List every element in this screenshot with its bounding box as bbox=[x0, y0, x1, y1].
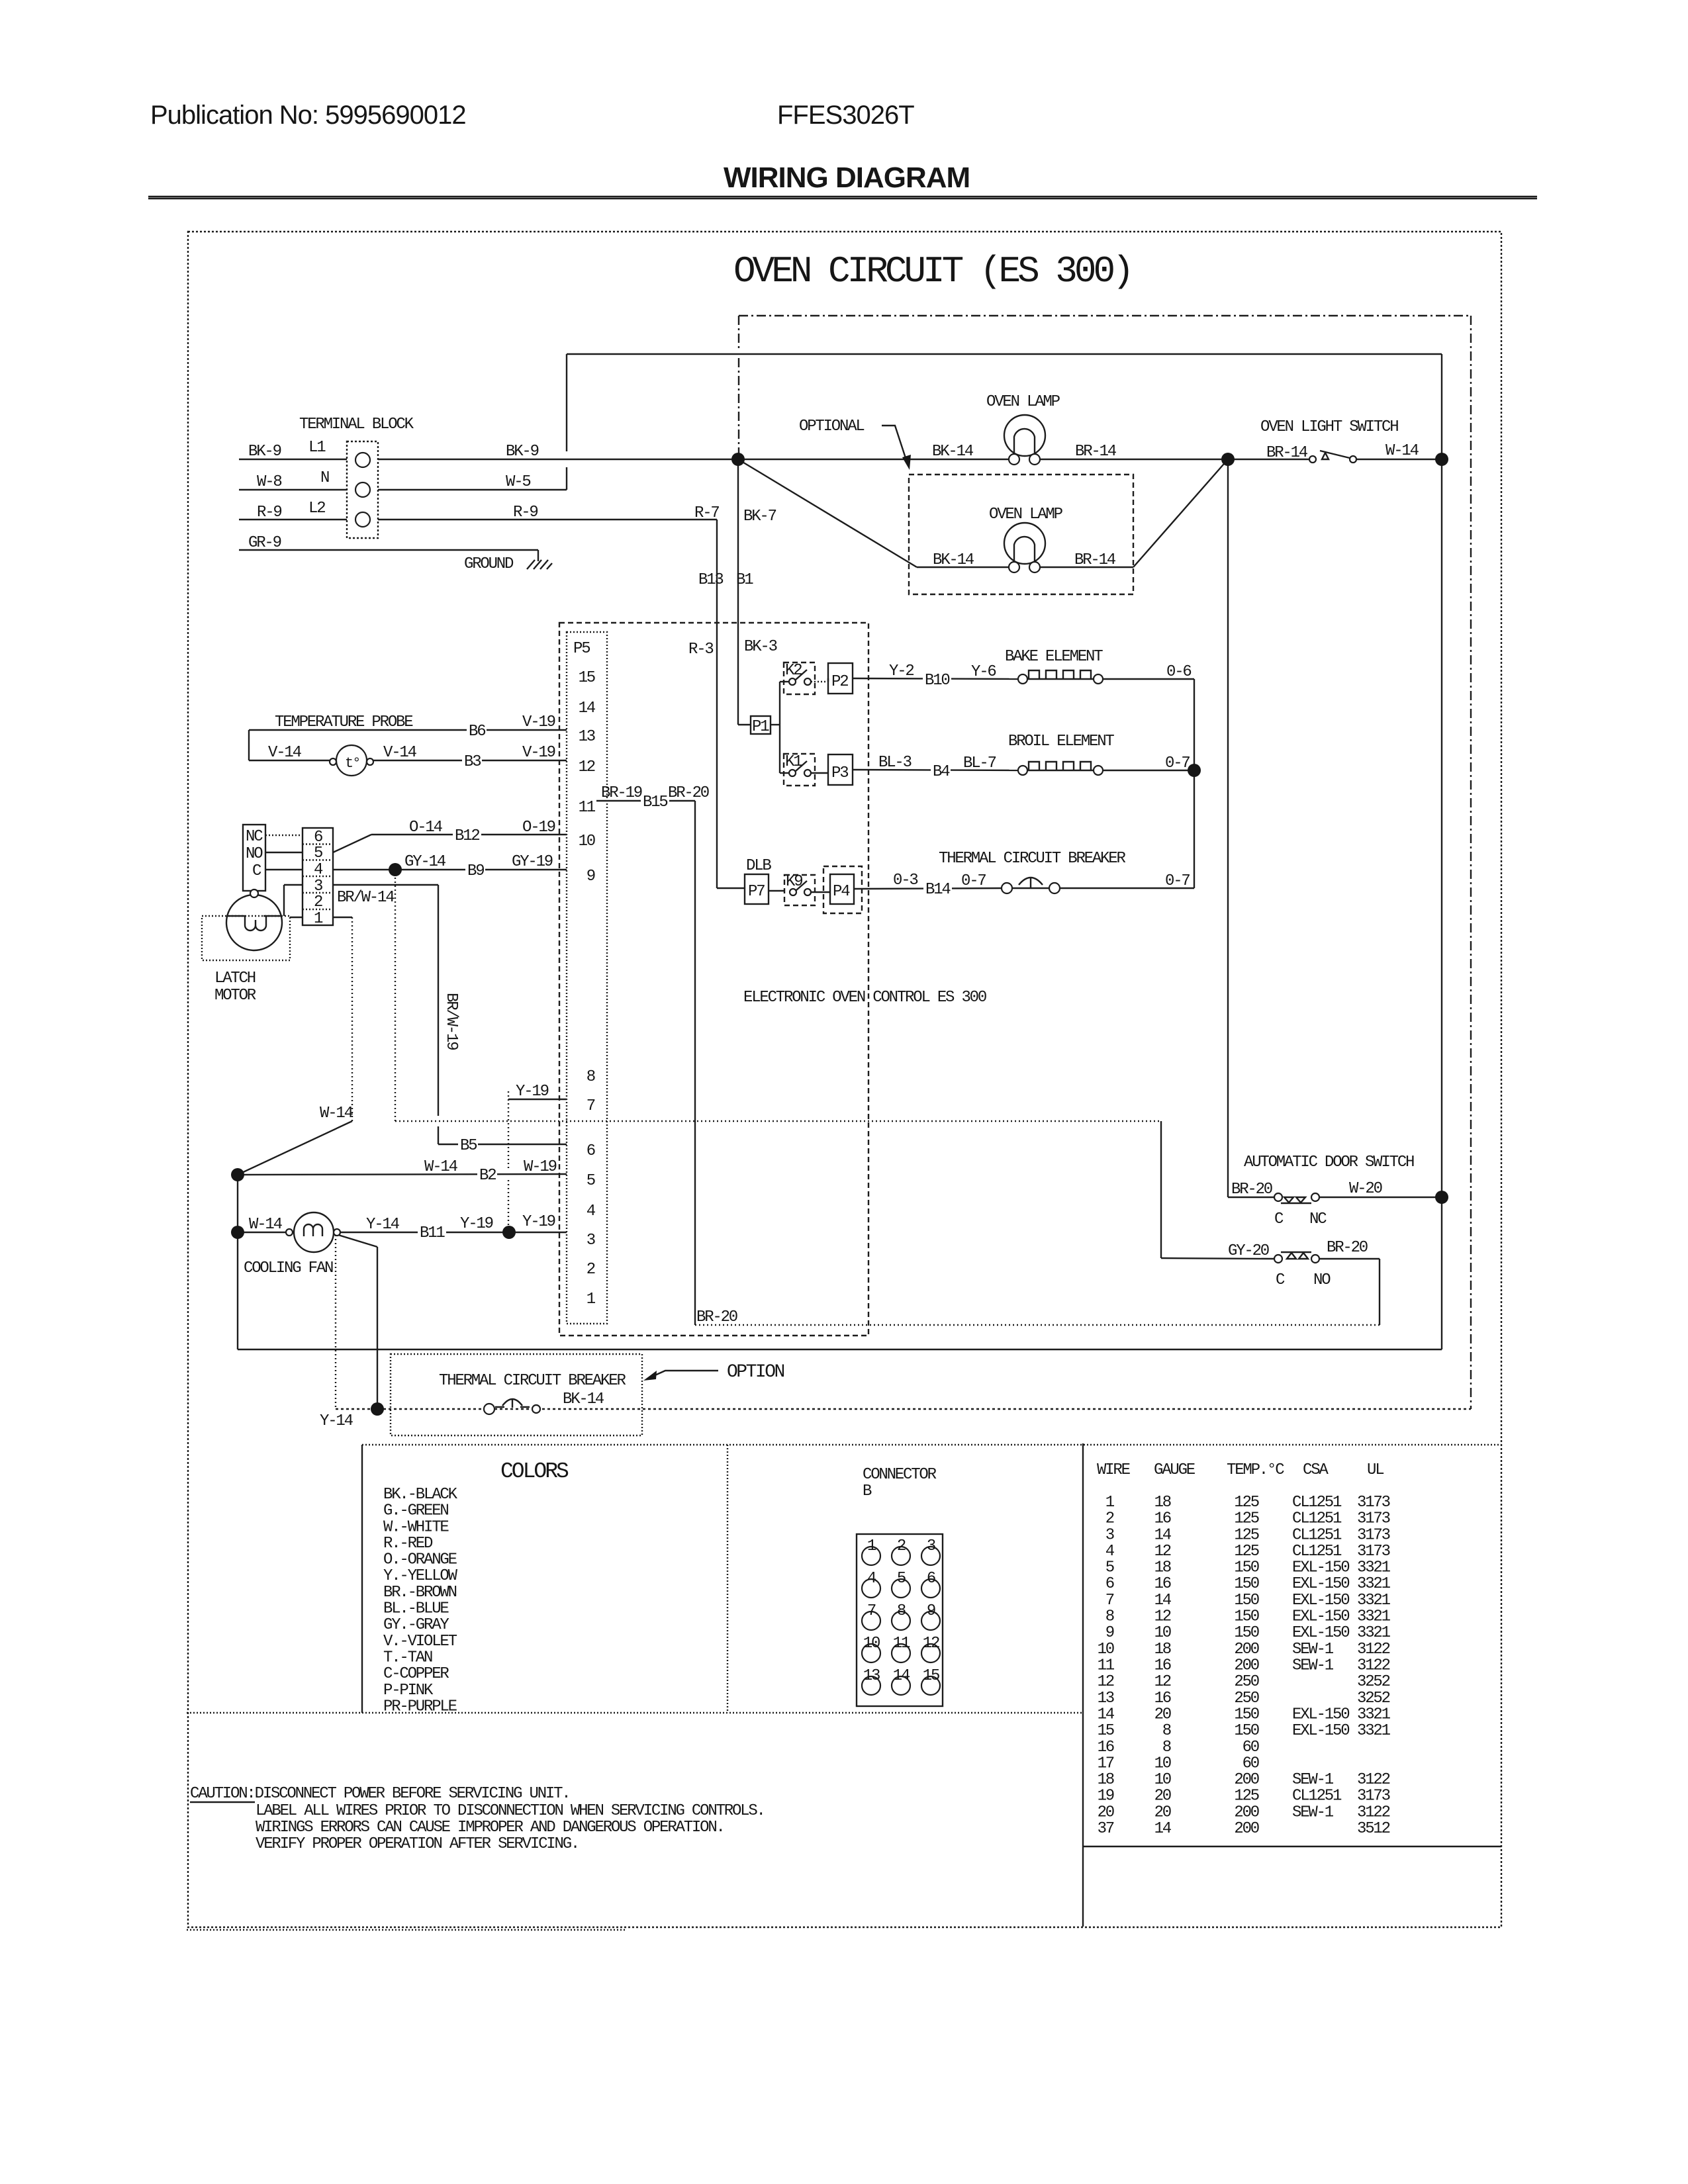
svg-text:LABEL ALL WIRES PRIOR TO DISCO: LABEL ALL WIRES PRIOR TO DISCONNECTION W… bbox=[256, 1802, 765, 1820]
svg-text:125: 125 bbox=[1234, 1543, 1258, 1561]
svg-text:6: 6 bbox=[1105, 1575, 1114, 1593]
svg-text:NO: NO bbox=[246, 845, 263, 863]
svg-text:B10: B10 bbox=[925, 672, 949, 690]
svg-text:WIRING DIAGRAM: WIRING DIAGRAM bbox=[724, 161, 970, 194]
svg-text:EXL-150: EXL-150 bbox=[1292, 1722, 1349, 1740]
svg-text:3321: 3321 bbox=[1357, 1624, 1391, 1642]
svg-text:OVEN LAMP: OVEN LAMP bbox=[986, 393, 1060, 411]
svg-text:8: 8 bbox=[586, 1068, 595, 1086]
svg-text:MOTOR: MOTOR bbox=[214, 987, 256, 1005]
svg-text:CONNECTOR: CONNECTOR bbox=[863, 1466, 937, 1484]
svg-text:Y-19: Y-19 bbox=[522, 1213, 555, 1231]
svg-text:NO: NO bbox=[1313, 1271, 1331, 1289]
svg-text:Y-14: Y-14 bbox=[366, 1216, 400, 1234]
svg-text:BK-7: BK-7 bbox=[743, 508, 776, 525]
svg-text:16: 16 bbox=[1098, 1739, 1114, 1756]
svg-text:12: 12 bbox=[1154, 1543, 1171, 1561]
svg-text:BR/W-19: BR/W-19 bbox=[442, 993, 460, 1050]
svg-text:P2: P2 bbox=[831, 673, 848, 691]
svg-text:9: 9 bbox=[586, 868, 595, 886]
svg-text:BL-7: BL-7 bbox=[963, 754, 996, 772]
svg-text:13: 13 bbox=[579, 728, 595, 746]
svg-text:3: 3 bbox=[927, 1537, 935, 1555]
svg-text:13: 13 bbox=[1098, 1690, 1114, 1707]
svg-text:B15: B15 bbox=[643, 794, 667, 811]
svg-text:NC: NC bbox=[1309, 1210, 1327, 1228]
svg-text:LATCH: LATCH bbox=[214, 970, 256, 987]
svg-text:L2: L2 bbox=[308, 500, 325, 518]
svg-text:Y.-YELLOW: Y.-YELLOW bbox=[383, 1567, 458, 1585]
svg-text:C: C bbox=[1274, 1210, 1284, 1228]
svg-text:EXL-150: EXL-150 bbox=[1292, 1706, 1349, 1723]
svg-text:GAUGE: GAUGE bbox=[1154, 1461, 1196, 1479]
svg-text:BK-14: BK-14 bbox=[933, 551, 974, 569]
svg-text:CL1251: CL1251 bbox=[1292, 1788, 1342, 1805]
svg-text:16: 16 bbox=[1154, 1657, 1171, 1675]
svg-text:W.-WHITE: W.-WHITE bbox=[383, 1518, 449, 1536]
svg-text:CL1251: CL1251 bbox=[1292, 1526, 1342, 1544]
svg-text:CSA: CSA bbox=[1303, 1461, 1329, 1479]
svg-text:10: 10 bbox=[1154, 1771, 1171, 1789]
svg-text:BR.-BROWN: BR.-BROWN bbox=[383, 1584, 457, 1602]
svg-text:4: 4 bbox=[586, 1203, 596, 1220]
svg-text:SEW-1: SEW-1 bbox=[1292, 1657, 1334, 1675]
svg-text:V-14: V-14 bbox=[383, 744, 417, 762]
svg-text:10: 10 bbox=[1154, 1624, 1171, 1642]
svg-text:8: 8 bbox=[1162, 1722, 1171, 1740]
svg-text:125: 125 bbox=[1234, 1526, 1258, 1544]
svg-text:BR-14: BR-14 bbox=[1074, 551, 1116, 569]
svg-text:CL1251: CL1251 bbox=[1292, 1510, 1342, 1528]
svg-text:PR-PURPLE: PR-PURPLE bbox=[383, 1698, 457, 1715]
svg-text:BR-20: BR-20 bbox=[1327, 1239, 1368, 1257]
svg-text:EXL-150: EXL-150 bbox=[1292, 1592, 1349, 1610]
svg-text:14: 14 bbox=[1154, 1820, 1172, 1838]
svg-text:ELECTRONIC OVEN CONTROL ES 300: ELECTRONIC OVEN CONTROL ES 300 bbox=[743, 989, 986, 1007]
svg-text:GR-9: GR-9 bbox=[248, 534, 281, 552]
svg-text:P1: P1 bbox=[752, 718, 769, 736]
svg-text:THERMAL CIRCUIT BREAKER: THERMAL CIRCUIT BREAKER bbox=[439, 1372, 626, 1390]
svg-text:14: 14 bbox=[1154, 1526, 1172, 1544]
svg-text:UL: UL bbox=[1367, 1461, 1383, 1479]
svg-text:5: 5 bbox=[1105, 1559, 1114, 1577]
svg-text:O-14: O-14 bbox=[409, 819, 443, 837]
svg-text:FFES3026T: FFES3026T bbox=[777, 101, 914, 130]
svg-text:WIRE: WIRE bbox=[1097, 1461, 1131, 1479]
svg-text:W-19: W-19 bbox=[524, 1158, 557, 1176]
svg-text:BK-3: BK-3 bbox=[744, 638, 777, 656]
svg-text:BL-3: BL-3 bbox=[878, 754, 912, 772]
svg-text:2: 2 bbox=[314, 893, 322, 911]
svg-text:G.-GREEN: G.-GREEN bbox=[383, 1502, 448, 1520]
svg-text:SEW-1: SEW-1 bbox=[1292, 1803, 1334, 1821]
svg-text:14: 14 bbox=[893, 1667, 910, 1685]
svg-text:20: 20 bbox=[1154, 1788, 1171, 1805]
svg-text:B9: B9 bbox=[467, 862, 484, 880]
svg-text:6: 6 bbox=[314, 829, 322, 846]
svg-text:13: 13 bbox=[863, 1667, 880, 1685]
svg-text:8: 8 bbox=[1105, 1608, 1114, 1626]
svg-text:0-7: 0-7 bbox=[961, 872, 986, 890]
svg-text:0-7: 0-7 bbox=[1165, 754, 1190, 772]
svg-text:C: C bbox=[252, 862, 261, 880]
svg-text:3: 3 bbox=[586, 1232, 595, 1250]
svg-text:1: 1 bbox=[1105, 1494, 1115, 1512]
svg-text:W-14: W-14 bbox=[424, 1158, 458, 1176]
svg-text:WIRINGS ERRORS CAN CAUSE IMPRO: WIRINGS ERRORS CAN CAUSE IMPROPER AND DA… bbox=[256, 1819, 724, 1837]
svg-text:250: 250 bbox=[1234, 1690, 1258, 1707]
svg-text:Y-19: Y-19 bbox=[516, 1083, 549, 1101]
svg-text:3321: 3321 bbox=[1357, 1706, 1391, 1723]
svg-text:12: 12 bbox=[1154, 1673, 1171, 1691]
svg-text:1: 1 bbox=[586, 1291, 596, 1308]
svg-text:14: 14 bbox=[1098, 1706, 1115, 1723]
svg-text:N: N bbox=[320, 469, 329, 487]
svg-text:150: 150 bbox=[1234, 1722, 1258, 1740]
svg-text:V.-VIOLET: V.-VIOLET bbox=[383, 1633, 457, 1651]
svg-text:P5: P5 bbox=[573, 640, 590, 658]
svg-text:3252: 3252 bbox=[1357, 1673, 1390, 1691]
svg-text:3173: 3173 bbox=[1357, 1788, 1390, 1805]
svg-text:10: 10 bbox=[579, 833, 595, 850]
svg-text:B5: B5 bbox=[460, 1137, 477, 1155]
svg-text:3122: 3122 bbox=[1357, 1803, 1390, 1821]
svg-text:150: 150 bbox=[1234, 1624, 1258, 1642]
svg-text:T.-TAN: T.-TAN bbox=[383, 1649, 432, 1667]
svg-text:BAKE ELEMENT: BAKE ELEMENT bbox=[1005, 648, 1103, 666]
svg-text:250: 250 bbox=[1234, 1673, 1258, 1691]
svg-text:Y-6: Y-6 bbox=[971, 663, 996, 681]
svg-text:10: 10 bbox=[1154, 1754, 1171, 1772]
svg-text:W-14: W-14 bbox=[249, 1216, 283, 1234]
svg-text:3321: 3321 bbox=[1357, 1592, 1391, 1610]
svg-text:EXL-150: EXL-150 bbox=[1292, 1575, 1349, 1593]
svg-text:B1: B1 bbox=[736, 571, 753, 589]
svg-text:Y-19: Y-19 bbox=[460, 1215, 493, 1233]
svg-text:3173: 3173 bbox=[1357, 1543, 1390, 1561]
svg-text:11: 11 bbox=[579, 799, 596, 817]
svg-text:150: 150 bbox=[1234, 1575, 1258, 1593]
svg-text:OVEN LIGHT SWITCH: OVEN LIGHT SWITCH bbox=[1260, 418, 1398, 436]
svg-text:R-7: R-7 bbox=[694, 504, 719, 522]
svg-text:BR-20: BR-20 bbox=[696, 1308, 737, 1326]
svg-text:7: 7 bbox=[1105, 1592, 1114, 1610]
svg-text:9: 9 bbox=[927, 1602, 935, 1620]
svg-text:GY-14: GY-14 bbox=[404, 853, 446, 871]
svg-text:THERMAL CIRCUIT BREAKER: THERMAL CIRCUIT BREAKER bbox=[939, 850, 1125, 868]
svg-text:L1: L1 bbox=[308, 439, 326, 457]
svg-text:O.-ORANGE: O.-ORANGE bbox=[383, 1551, 457, 1569]
svg-text:12: 12 bbox=[1154, 1608, 1171, 1626]
svg-text:15: 15 bbox=[579, 669, 595, 687]
svg-text:9: 9 bbox=[1105, 1624, 1114, 1642]
svg-text:5: 5 bbox=[314, 844, 322, 862]
svg-text:V-19: V-19 bbox=[522, 713, 555, 731]
svg-text:R.-RED: R.-RED bbox=[383, 1535, 433, 1553]
svg-text:BL.-BLUE: BL.-BLUE bbox=[383, 1600, 449, 1618]
svg-text:K9: K9 bbox=[786, 873, 802, 891]
svg-text:2: 2 bbox=[586, 1261, 595, 1279]
svg-text:15: 15 bbox=[923, 1667, 939, 1685]
svg-text:17: 17 bbox=[1098, 1754, 1114, 1772]
svg-text:B6: B6 bbox=[469, 723, 485, 741]
svg-text:3321: 3321 bbox=[1357, 1575, 1391, 1593]
svg-text:CAUTION:DISCONNECT POWER BEFOR: CAUTION:DISCONNECT POWER BEFORE SERVICIN… bbox=[190, 1785, 570, 1803]
svg-text:3: 3 bbox=[314, 878, 322, 895]
svg-text:Y-14: Y-14 bbox=[320, 1412, 353, 1430]
svg-text:EXL-150: EXL-150 bbox=[1292, 1559, 1349, 1577]
svg-text:125: 125 bbox=[1234, 1494, 1258, 1512]
svg-text:15: 15 bbox=[1098, 1722, 1114, 1740]
svg-text:200: 200 bbox=[1234, 1820, 1258, 1838]
svg-text:200: 200 bbox=[1234, 1803, 1258, 1821]
svg-text:W-8: W-8 bbox=[257, 473, 281, 491]
svg-text:Y-2: Y-2 bbox=[889, 662, 914, 680]
svg-text:SEW-1: SEW-1 bbox=[1292, 1641, 1334, 1659]
svg-text:NC: NC bbox=[246, 828, 263, 846]
svg-text:B4: B4 bbox=[933, 763, 950, 781]
svg-text:BR-20: BR-20 bbox=[668, 784, 709, 802]
svg-text:2: 2 bbox=[897, 1537, 906, 1555]
svg-text:COLORS: COLORS bbox=[500, 1459, 569, 1484]
svg-text:CL1251: CL1251 bbox=[1292, 1494, 1342, 1512]
svg-text:AUTOMATIC DOOR SWITCH: AUTOMATIC DOOR SWITCH bbox=[1244, 1154, 1414, 1171]
svg-text:C: C bbox=[1276, 1271, 1285, 1289]
svg-text:K2: K2 bbox=[785, 662, 802, 680]
svg-text:3173: 3173 bbox=[1357, 1510, 1390, 1528]
svg-text:20: 20 bbox=[1154, 1803, 1171, 1821]
svg-text:12: 12 bbox=[1098, 1673, 1114, 1691]
svg-text:B11: B11 bbox=[420, 1224, 445, 1242]
svg-text:t°: t° bbox=[345, 755, 359, 772]
svg-text:TERMINAL BLOCK: TERMINAL BLOCK bbox=[299, 416, 414, 433]
svg-text:0-6: 0-6 bbox=[1166, 663, 1191, 681]
svg-text:1: 1 bbox=[314, 910, 323, 928]
svg-text:200: 200 bbox=[1234, 1641, 1258, 1659]
svg-text:O-19: O-19 bbox=[522, 819, 555, 837]
svg-text:B14: B14 bbox=[925, 881, 951, 899]
svg-text:TEMP.°C: TEMP.°C bbox=[1227, 1461, 1284, 1479]
svg-text:3321: 3321 bbox=[1357, 1608, 1391, 1626]
svg-text:3321: 3321 bbox=[1357, 1722, 1391, 1740]
svg-text:0-3: 0-3 bbox=[893, 872, 917, 889]
svg-text:11: 11 bbox=[893, 1635, 910, 1653]
svg-text:10: 10 bbox=[863, 1635, 880, 1653]
svg-text:3512: 3512 bbox=[1357, 1820, 1390, 1838]
svg-text:OVEN CIRCUIT (ES 300): OVEN CIRCUIT (ES 300) bbox=[733, 250, 1131, 293]
svg-text:BR-14: BR-14 bbox=[1075, 443, 1117, 461]
svg-text:BR-20: BR-20 bbox=[1231, 1181, 1272, 1199]
svg-text:3122: 3122 bbox=[1357, 1641, 1390, 1659]
svg-text:BK-9: BK-9 bbox=[248, 443, 281, 461]
svg-text:P4: P4 bbox=[833, 883, 850, 901]
svg-text:GY.-GRAY: GY.-GRAY bbox=[383, 1616, 449, 1634]
svg-text:37: 37 bbox=[1098, 1820, 1114, 1838]
svg-text:VERIFY PROPER OPERATION AFTER: VERIFY PROPER OPERATION AFTER SERVICING. bbox=[256, 1835, 579, 1853]
svg-text:GY-19: GY-19 bbox=[512, 853, 553, 871]
svg-text:B: B bbox=[863, 1482, 872, 1500]
svg-text:BK-14: BK-14 bbox=[563, 1390, 604, 1408]
svg-text:18: 18 bbox=[1154, 1559, 1171, 1577]
svg-text:125: 125 bbox=[1234, 1788, 1258, 1805]
svg-text:150: 150 bbox=[1234, 1608, 1258, 1626]
svg-text:W-20: W-20 bbox=[1349, 1180, 1382, 1198]
svg-text:COOLING FAN: COOLING FAN bbox=[244, 1259, 333, 1277]
svg-text:14: 14 bbox=[579, 700, 596, 717]
svg-text:150: 150 bbox=[1234, 1592, 1258, 1610]
svg-text:V-19: V-19 bbox=[522, 744, 555, 762]
svg-text:60: 60 bbox=[1243, 1739, 1259, 1756]
svg-text:20: 20 bbox=[1098, 1803, 1114, 1821]
svg-text:20: 20 bbox=[1154, 1706, 1171, 1723]
svg-text:18: 18 bbox=[1154, 1494, 1171, 1512]
svg-text:DLB: DLB bbox=[746, 857, 771, 875]
svg-text:Publication No: 5995690012: Publication No: 5995690012 bbox=[150, 101, 466, 130]
svg-text:4: 4 bbox=[867, 1570, 876, 1588]
svg-text:CL1251: CL1251 bbox=[1292, 1543, 1342, 1561]
svg-text:14: 14 bbox=[1154, 1592, 1172, 1610]
svg-text:GROUND: GROUND bbox=[464, 555, 514, 573]
svg-text:TEMPERATURE PROBE: TEMPERATURE PROBE bbox=[275, 713, 413, 731]
svg-text:OVEN LAMP: OVEN LAMP bbox=[989, 506, 1063, 523]
svg-text:18: 18 bbox=[1098, 1771, 1114, 1789]
svg-text:OPTION: OPTION bbox=[727, 1362, 784, 1383]
svg-text:3: 3 bbox=[1105, 1526, 1114, 1544]
svg-text:BR/W-14: BR/W-14 bbox=[337, 889, 395, 907]
svg-text:4: 4 bbox=[1105, 1543, 1115, 1561]
svg-text:B3: B3 bbox=[464, 753, 481, 771]
svg-text:3122: 3122 bbox=[1357, 1771, 1390, 1789]
svg-text:60: 60 bbox=[1243, 1754, 1259, 1772]
svg-text:P3: P3 bbox=[831, 764, 848, 782]
svg-text:R-3: R-3 bbox=[688, 641, 713, 659]
svg-text:BROIL ELEMENT: BROIL ELEMENT bbox=[1008, 733, 1114, 751]
svg-text:5: 5 bbox=[586, 1172, 595, 1190]
svg-text:11: 11 bbox=[1098, 1657, 1115, 1675]
svg-text:0-7: 0-7 bbox=[1165, 872, 1190, 890]
svg-text:R-9: R-9 bbox=[257, 504, 281, 522]
svg-text:3173: 3173 bbox=[1357, 1494, 1390, 1512]
svg-text:6: 6 bbox=[586, 1142, 595, 1160]
svg-text:16: 16 bbox=[1154, 1690, 1171, 1707]
svg-text:6: 6 bbox=[927, 1570, 935, 1588]
svg-text:4: 4 bbox=[314, 861, 323, 879]
svg-text:B13: B13 bbox=[698, 571, 723, 589]
svg-text:2: 2 bbox=[1105, 1510, 1114, 1528]
svg-text:K1: K1 bbox=[785, 753, 802, 771]
svg-text:R-9: R-9 bbox=[513, 504, 538, 522]
svg-text:B12: B12 bbox=[455, 827, 479, 845]
svg-text:BR-19: BR-19 bbox=[601, 784, 642, 802]
svg-text:P7: P7 bbox=[748, 883, 765, 901]
svg-text:16: 16 bbox=[1154, 1575, 1171, 1593]
svg-text:8: 8 bbox=[1162, 1739, 1171, 1756]
svg-text:3122: 3122 bbox=[1357, 1657, 1390, 1675]
svg-text:200: 200 bbox=[1234, 1771, 1258, 1789]
svg-text:12: 12 bbox=[579, 758, 595, 776]
svg-text:3173: 3173 bbox=[1357, 1526, 1390, 1544]
svg-text:8: 8 bbox=[897, 1602, 906, 1620]
svg-text:BK-9: BK-9 bbox=[506, 443, 539, 461]
svg-text:16: 16 bbox=[1154, 1510, 1171, 1528]
svg-text:EXL-150: EXL-150 bbox=[1292, 1608, 1349, 1626]
svg-text:OPTIONAL: OPTIONAL bbox=[799, 418, 864, 435]
svg-text:7: 7 bbox=[586, 1097, 595, 1115]
svg-text:3252: 3252 bbox=[1357, 1690, 1390, 1707]
svg-text:5: 5 bbox=[897, 1570, 906, 1588]
svg-text:12: 12 bbox=[923, 1635, 939, 1653]
svg-text:150: 150 bbox=[1234, 1559, 1258, 1577]
svg-text:SEW-1: SEW-1 bbox=[1292, 1771, 1334, 1789]
svg-text:P-PINK: P-PINK bbox=[383, 1682, 434, 1700]
svg-text:W-14: W-14 bbox=[1385, 442, 1419, 460]
svg-text:B2: B2 bbox=[479, 1167, 496, 1185]
svg-text:BK-14: BK-14 bbox=[932, 443, 974, 461]
svg-text:GY-20: GY-20 bbox=[1228, 1242, 1269, 1260]
svg-text:V-14: V-14 bbox=[268, 744, 302, 762]
svg-text:150: 150 bbox=[1234, 1706, 1258, 1723]
svg-text:3321: 3321 bbox=[1357, 1559, 1391, 1577]
svg-text:C-COPPER: C-COPPER bbox=[383, 1665, 449, 1683]
svg-text:18: 18 bbox=[1154, 1641, 1171, 1659]
svg-text:1: 1 bbox=[867, 1537, 876, 1555]
svg-text:BR-14: BR-14 bbox=[1266, 444, 1308, 462]
svg-text:EXL-150: EXL-150 bbox=[1292, 1624, 1349, 1642]
svg-text:19: 19 bbox=[1098, 1788, 1114, 1805]
svg-text:200: 200 bbox=[1234, 1657, 1258, 1675]
svg-text:BK.-BLACK: BK.-BLACK bbox=[383, 1486, 458, 1504]
svg-text:10: 10 bbox=[1098, 1641, 1114, 1659]
svg-text:125: 125 bbox=[1234, 1510, 1258, 1528]
svg-text:7: 7 bbox=[867, 1602, 876, 1620]
svg-text:W-14: W-14 bbox=[320, 1105, 353, 1122]
svg-text:W-5: W-5 bbox=[506, 473, 530, 491]
